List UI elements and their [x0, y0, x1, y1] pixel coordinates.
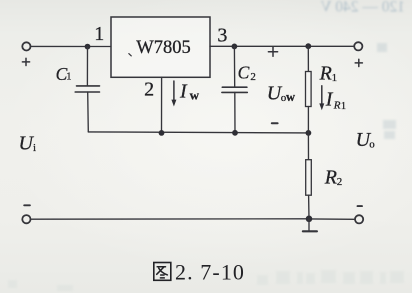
minus sign output	[358, 205, 363, 207]
capacitor C2	[233, 46, 235, 87]
svg-text:R: R	[324, 167, 337, 189]
svg-text:w: w	[286, 90, 295, 104]
stray scan tick	[129, 54, 132, 56]
svg-text:2: 2	[144, 78, 154, 100]
svg-text:I: I	[179, 80, 188, 102]
svg-text:W7805: W7805	[136, 38, 190, 58]
node pin2 junction	[159, 130, 165, 136]
svg-text:1: 1	[94, 23, 104, 45]
svg-text:1: 1	[66, 72, 71, 83]
ground	[308, 219, 310, 231]
node R1-top junction	[305, 43, 311, 49]
middle rail wire	[88, 132, 308, 133]
bottom rail wire	[31, 218, 309, 220]
minus sign UoW	[272, 122, 278, 124]
hand-drawn CJK 图 glyph	[154, 263, 171, 281]
terminal input + (top-left)	[22, 42, 30, 50]
svg-text:1: 1	[332, 72, 338, 84]
arrow IR1	[321, 86, 323, 105]
regulator U1 box W7805	[111, 17, 210, 77]
svg-text:1: 1	[341, 101, 346, 112]
node C1-top junction	[85, 44, 91, 50]
terminal output + (top-right)	[354, 42, 362, 50]
node C2-top junction	[232, 44, 238, 50]
node C2-bottom junction	[232, 130, 238, 136]
minus sign input	[24, 204, 30, 206]
node R1-bottom junction	[306, 130, 312, 136]
terminal output - (bottom-right)	[355, 215, 363, 223]
wire junction to output - terminal	[309, 218, 355, 220]
faint bleed marks right edge	[377, 43, 396, 139]
caption 图 2.7-10	[154, 260, 245, 285]
svg-text:w: w	[190, 88, 200, 103]
faint bleed row bottom-right	[8, 270, 404, 291]
faint bleed-through text top-right	[320, 0, 405, 16]
pin2 wire	[161, 77, 163, 133]
plus sign output	[355, 59, 362, 66]
svg-text:2: 2	[250, 71, 256, 83]
svg-text:3: 3	[217, 24, 227, 46]
plus sign input	[22, 58, 29, 65]
svg-text:R: R	[333, 100, 341, 112]
svg-text:120 — 240 V: 120 — 240 V	[320, 0, 405, 16]
resistor R1	[307, 46, 309, 71]
plus sign UoW	[268, 47, 277, 56]
svg-text:I: I	[325, 89, 334, 111]
svg-text:2: 2	[337, 176, 343, 188]
svg-text:o: o	[369, 139, 375, 151]
svg-text:2. 7-10: 2. 7-10	[175, 260, 245, 285]
svg-text:i: i	[33, 142, 36, 154]
wire pin3 to output terminal	[210, 45, 354, 47]
capacitor C1	[86, 47, 88, 86]
resistor R2	[307, 133, 309, 160]
terminal input - (bottom-left)	[22, 215, 30, 223]
node ground junction	[306, 216, 313, 223]
wire input to pin1	[30, 45, 111, 47]
svg-text:R: R	[319, 63, 332, 85]
arrow Iw	[173, 81, 175, 101]
svg-text:C: C	[238, 62, 250, 82]
